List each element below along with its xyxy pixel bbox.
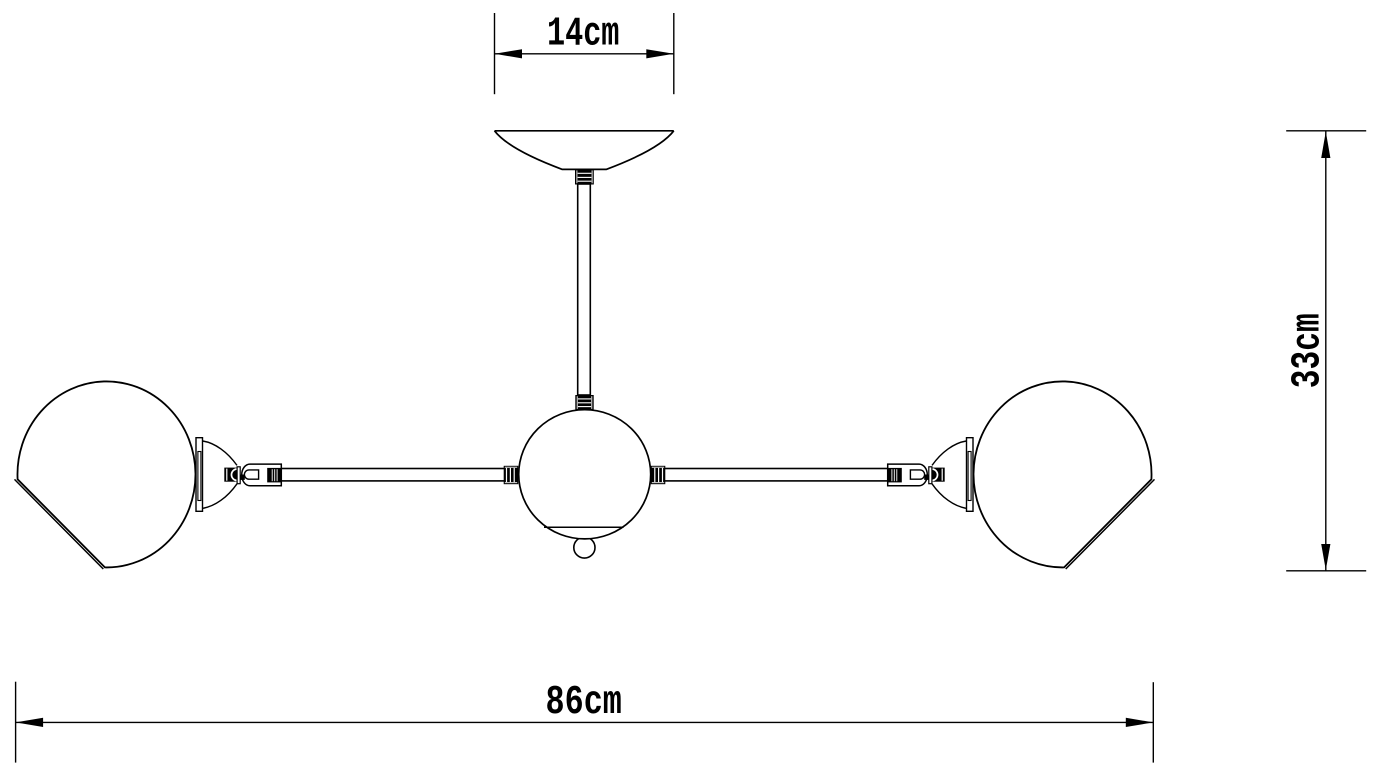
rod collar at center body top <box>575 395 593 410</box>
right dim top tick <box>1286 130 1366 132</box>
canopy (ceiling cup) <box>495 131 674 170</box>
bottom dim line <box>16 721 1154 723</box>
canopy stem collar <box>575 169 594 184</box>
bottom dim right arrow <box>1126 718 1154 727</box>
top dim left arrow <box>495 49 523 58</box>
left sleeve slot <box>244 470 258 479</box>
right dim line <box>1325 131 1327 571</box>
left globe rim outer line <box>15 479 104 569</box>
bottom dim left extension line <box>15 682 17 763</box>
right arm tube <box>664 469 888 481</box>
vertical rod <box>578 184 591 395</box>
right arm collar on center body <box>651 466 666 484</box>
bottom dimension 86cm <box>16 680 1154 763</box>
left arm collar on center body <box>504 466 519 484</box>
bottom dim right extension line <box>1152 682 1154 762</box>
svg-text:14cm: 14cm <box>547 11 620 57</box>
left shade fitter band <box>196 438 203 512</box>
top dim line <box>495 53 674 55</box>
top dim right arrow <box>646 49 674 58</box>
right lamp assembly (mirror) <box>888 381 1155 569</box>
left bushing thread lines <box>271 469 273 481</box>
bottom dim left arrow <box>16 718 43 727</box>
top dim left extension line <box>494 13 496 94</box>
left arm tube <box>281 469 505 481</box>
bottom finial knob <box>574 537 595 558</box>
svg-text:33cm: 33cm <box>1285 313 1331 388</box>
left lamp assembly <box>15 381 282 569</box>
left swivel sleeve <box>242 464 282 486</box>
right dim up arrow <box>1321 132 1330 159</box>
right dim down arrow <box>1321 544 1330 570</box>
right dim bottom tick <box>1286 570 1366 572</box>
left arm bushing <box>267 468 281 483</box>
left socket nut <box>224 468 237 482</box>
glass seam chord inside center body <box>544 526 624 528</box>
right dimension 33cm <box>1285 131 1366 571</box>
top dim right extension line <box>673 13 675 94</box>
top dimension 14cm <box>495 11 674 94</box>
left swivel pin <box>240 475 245 480</box>
left globe shade <box>17 381 195 567</box>
left fitter horn <box>203 441 237 508</box>
left socket plate <box>237 467 240 484</box>
svg-text:86cm: 86cm <box>546 680 622 726</box>
center body sphere <box>519 410 651 539</box>
left fitter band inner <box>198 452 201 501</box>
